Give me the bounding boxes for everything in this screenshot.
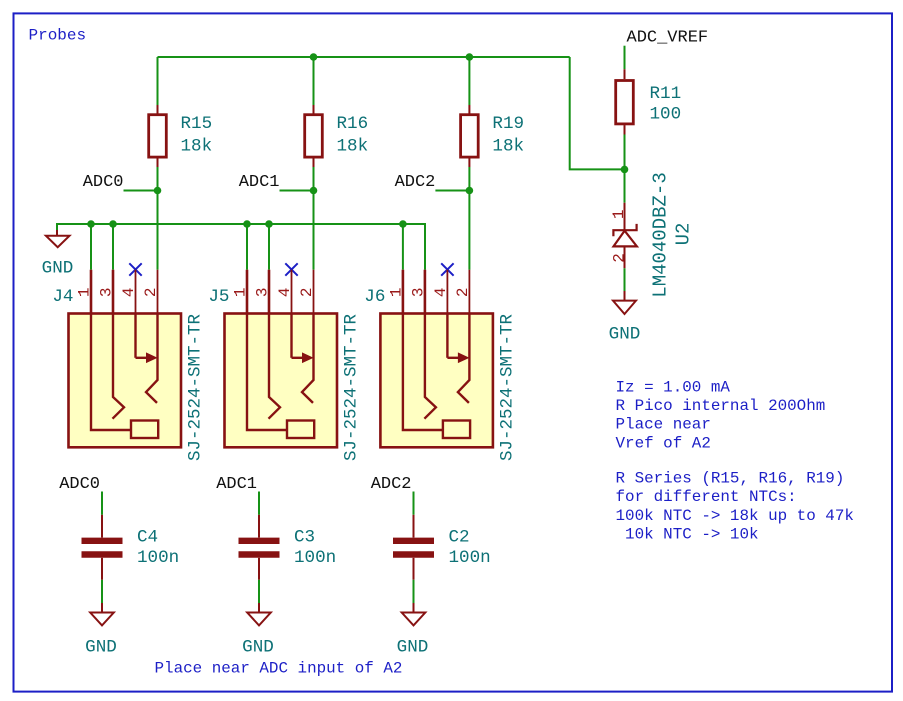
svg-text:ADC1: ADC1 [216, 475, 257, 494]
wire ADC1 label to C3 [258, 492, 260, 515]
J4 internal box (sleeve) [131, 421, 158, 439]
svg-text:2: 2 [142, 287, 160, 297]
svg-text:SJ-2524-SMT-TR: SJ-2524-SMT-TR [497, 313, 517, 461]
J6 pin 2 switch contact [458, 314, 470, 403]
junction R11 / U2 [621, 166, 629, 174]
resistor R11 100 [616, 69, 634, 134]
connector J6 SJ-2524-SMT-TR [380, 270, 493, 448]
svg-text:4: 4 [120, 287, 138, 297]
junction node ADC0 [154, 187, 162, 195]
junction bus / J4 pin 1 [87, 220, 95, 228]
no-connect X on J6 pin 4 [441, 263, 453, 275]
wire top bus right drop [570, 57, 625, 169]
J6 pin 1 internal contact [403, 314, 443, 431]
svg-text:Iz = 1.00 mA: Iz = 1.00 mA [616, 378, 731, 396]
svg-text:R19: R19 [492, 114, 524, 134]
J6 pin 1 [402, 270, 405, 314]
svg-text:100k NTC -> 18k up to 47k: 100k NTC -> 18k up to 47k [616, 507, 854, 525]
svg-text:2: 2 [454, 287, 472, 297]
wire ADC0 label to C4 [101, 492, 103, 515]
J5 pin 1 [246, 270, 249, 314]
wire R16 top [313, 57, 315, 105]
junction node ADC2 [466, 187, 474, 195]
wire ADC_VREF to R11 [624, 46, 626, 69]
J4 pin 4 tip arrow [134, 314, 136, 358]
svg-text:J5: J5 [208, 287, 229, 307]
junction bus / J5 pin 1 [243, 220, 251, 228]
U2 anode triangle [614, 231, 637, 247]
svg-text:SJ-2524-SMT-TR: SJ-2524-SMT-TR [342, 313, 362, 461]
wire bus to J4 pin 1 [90, 224, 92, 270]
svg-text:GND: GND [85, 638, 117, 658]
svg-text:2: 2 [298, 287, 316, 297]
wire R19 bottom to node ADC2 [468, 167, 470, 191]
no-connect X on J5 pin 4 [285, 263, 297, 275]
wire R15 top [157, 57, 159, 105]
J6 pin 4 [446, 270, 448, 314]
svg-text:ADC0: ADC0 [59, 475, 100, 494]
svg-text:2: 2 [611, 253, 629, 263]
J4 pin 3 [112, 270, 115, 314]
svg-text:C2: C2 [449, 528, 470, 548]
svg-text:100n: 100n [294, 548, 336, 568]
zener diode U2 LM4040DBZ-3 [610, 203, 637, 269]
junction bus / J4 pin 3 [109, 220, 117, 228]
svg-text:10k NTC -> 10k: 10k NTC -> 10k [616, 526, 759, 544]
svg-text:GND: GND [42, 259, 74, 279]
svg-text:R Pico internal 200Ohm: R Pico internal 200Ohm [616, 397, 826, 415]
wire R19 top [468, 57, 470, 105]
wire node ADC1 down to J5 pin 2 [313, 191, 315, 270]
capacitor C3 100n [239, 515, 280, 580]
svg-text:18k: 18k [181, 137, 213, 157]
svg-text:U2: U2 [673, 223, 695, 246]
ground symbol left of bus [46, 230, 70, 247]
svg-text:LM4040DBZ-3: LM4040DBZ-3 [650, 172, 672, 297]
wire ADC2 label stub [435, 190, 469, 192]
junction bus / J6 pin 1 [399, 220, 407, 228]
svg-text:ADC_VREF: ADC_VREF [627, 29, 709, 48]
J5 pin 4 tip arrow [290, 314, 292, 358]
svg-text:Place near ADC input of A2: Place near ADC input of A2 [155, 660, 403, 678]
svg-text:100n: 100n [449, 548, 491, 568]
wire C2 to GND [413, 580, 415, 605]
wire bus to J6 pin 1 [402, 224, 404, 270]
wire bus to J5 pin 3 [268, 224, 270, 270]
wire R15 bottom to node ADC0 [157, 167, 159, 191]
wire C4 to GND [101, 580, 103, 605]
svg-text:18k: 18k [492, 137, 524, 157]
J6 pin 2 [468, 270, 470, 314]
svg-text:Probes: Probes [29, 27, 87, 45]
ground symbol (C4) [90, 603, 114, 625]
svg-text:Vref of A2: Vref of A2 [616, 434, 711, 452]
J5 pin 3 switch contact [269, 314, 281, 419]
wire C3 to GND [258, 580, 260, 605]
ground symbol (C3) [247, 603, 271, 625]
J5 pin 2 [313, 270, 315, 314]
svg-text:100n: 100n [137, 548, 179, 568]
svg-text:ADC2: ADC2 [371, 475, 412, 494]
svg-text:100: 100 [650, 105, 682, 125]
wire ADC0 label stub [124, 190, 158, 192]
J4 pin 4 [135, 270, 137, 314]
svg-text:18k: 18k [337, 137, 369, 157]
J4 pin 2 switch contact [146, 314, 158, 403]
svg-text:J4: J4 [52, 287, 73, 307]
capacitor C4 100n [82, 515, 123, 580]
svg-text:1: 1 [76, 287, 94, 297]
J4 pin 1 [90, 270, 93, 314]
J5 pin 4 [291, 270, 293, 314]
svg-text:J6: J6 [364, 287, 385, 307]
J4 pin 3 switch contact [113, 314, 125, 419]
svg-text:4: 4 [276, 287, 294, 297]
svg-text:R16: R16 [337, 114, 369, 134]
J6 internal box (sleeve) [443, 421, 470, 439]
resistor R16 18k [305, 105, 323, 167]
wire bus to J4 pin 3 [112, 224, 114, 270]
wire R16 bottom to node ADC1 [313, 167, 315, 191]
svg-text:GND: GND [242, 638, 274, 658]
svg-text:3: 3 [254, 287, 272, 297]
junction on top bus at R16 [310, 53, 318, 61]
svg-text:ADC1: ADC1 [239, 173, 280, 192]
svg-text:C3: C3 [294, 528, 315, 548]
junction bus / J5 pin 3 [265, 220, 273, 228]
wire ADC2 label to C2 [413, 492, 415, 515]
wire U2 to GND [624, 268, 626, 293]
ground symbol (C2) [402, 603, 426, 625]
svg-text:Place near: Place near [616, 416, 711, 434]
svg-text:ADC0: ADC0 [83, 173, 124, 192]
svg-text:ADC2: ADC2 [395, 173, 436, 192]
wire lower GND bus [57, 224, 425, 270]
svg-text:3: 3 [98, 287, 116, 297]
resistor R15 18k [149, 105, 167, 167]
no-connect X on J4 pin 4 [129, 263, 141, 275]
U2 cathode bar [613, 224, 636, 236]
svg-text:C4: C4 [137, 528, 158, 548]
svg-text:3: 3 [409, 287, 427, 297]
ground symbol U2 [613, 291, 636, 314]
J5 pin 1 internal contact [247, 314, 287, 431]
resistor R19 18k [461, 105, 479, 167]
wire ADC1 label stub [280, 190, 314, 192]
svg-text:GND: GND [397, 638, 429, 658]
svg-text:R Series (R15, R16, R19): R Series (R15, R16, R19) [616, 470, 845, 488]
svg-text:SJ-2524-SMT-TR: SJ-2524-SMT-TR [186, 313, 206, 461]
wire node ADC0 down to J4 pin 2 [157, 191, 159, 270]
J6 pin 3 switch contact [424, 314, 436, 419]
junction on top bus at R19 [466, 53, 474, 61]
J6 pin 3 [424, 270, 427, 314]
wire node ADC2 down to J6 pin 2 [468, 191, 470, 270]
svg-text:R11: R11 [650, 84, 682, 104]
svg-text:1: 1 [610, 209, 628, 219]
J5 pin 2 switch contact [302, 314, 314, 403]
connector J4 SJ-2524-SMT-TR [69, 270, 182, 448]
capacitor C2 100n [393, 515, 434, 580]
J4 pin 1 internal contact [91, 314, 131, 431]
connector J5 SJ-2524-SMT-TR [225, 270, 338, 448]
svg-text:4: 4 [432, 287, 450, 297]
wire bus to J5 pin 1 [246, 224, 248, 270]
J4 pin 2 [157, 270, 159, 314]
svg-text:for different NTCs:: for different NTCs: [616, 488, 797, 506]
junction node ADC1 [310, 187, 318, 195]
svg-text:1: 1 [232, 287, 250, 297]
J5 pin 3 [268, 270, 271, 314]
wire top bus horizontal [158, 56, 570, 58]
svg-text:R15: R15 [181, 114, 213, 134]
J5 internal box (sleeve) [287, 421, 314, 439]
wire R11 to node [624, 135, 626, 203]
J6 pin 4 tip arrow [446, 314, 448, 358]
svg-text:GND: GND [609, 325, 641, 345]
svg-text:1: 1 [387, 287, 405, 297]
